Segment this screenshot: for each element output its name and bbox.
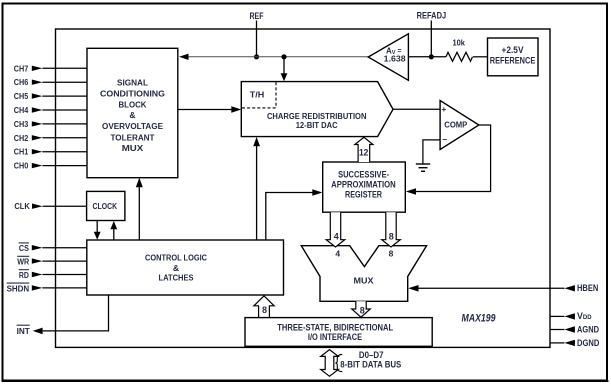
svg-text:CH1: CH1 [14,147,29,157]
svg-text:REGISTER: REGISTER [345,190,382,200]
svg-text:D0–D7: D0–D7 [359,350,384,360]
clock block [87,191,125,220]
svg-text:SUCCESSIVE-: SUCCESSIVE- [338,170,389,180]
wire DAC output to COMP+ [393,108,440,110]
voltage reference +2.5V [488,38,539,76]
three-state bidirectional I/O interface [245,318,432,347]
svg-text:8-BIT DATA BUS: 8-BIT DATA BUS [340,360,401,370]
op-amp A1 gain 1.638 [368,34,408,81]
junction node to T/H [281,54,288,81]
svg-text:RD: RD [19,270,29,280]
data bus D0-D7 [321,350,402,377]
bus 8 MUX to IO interface [352,301,371,317]
pin RD [19,270,87,280]
svg-text:BLOCK: BLOCK [119,99,148,109]
pin CH6 [14,77,87,87]
svg-text:CH0: CH0 [14,161,29,171]
mux block [301,246,426,302]
svg-text:OVERVOLTAGE: OVERVOLTAGE [102,121,163,131]
pin CH7 [14,63,87,73]
pin CH1 [14,147,87,157]
wire control to clock up [110,221,117,240]
signal conditioning block [87,48,178,177]
comparator COMP [440,101,479,150]
svg-text:&: & [129,110,135,120]
svg-text:8: 8 [389,232,394,242]
resistor R1 10k [446,37,473,61]
pin SHDN [7,283,87,293]
svg-text:12: 12 [359,147,369,157]
wire control to SAR [266,189,323,240]
svg-text:T/H: T/H [250,90,265,100]
svg-text:REFERENCE: REFERENCE [490,55,536,65]
svg-text:CH7: CH7 [14,63,29,73]
svg-text:4: 4 [334,232,339,242]
svg-text:MAX199: MAX199 [462,313,497,325]
svg-text:MUX: MUX [122,143,144,153]
pin CH3 [14,119,87,129]
pin CH2 [14,133,87,143]
svg-text:+: + [441,104,446,114]
svg-text:SIGNAL: SIGNAL [117,78,148,88]
pin CH5 [14,91,87,101]
svg-text:12-BIT DAC: 12-BIT DAC [296,120,338,130]
wire COMP output to SAR [406,125,491,195]
svg-text:INT: INT [17,326,31,336]
svg-text:CH6: CH6 [14,77,29,87]
pin DGND [550,338,599,348]
wire control to DAC [253,137,260,240]
node REFADJ [417,11,447,60]
svg-text:4: 4 [335,249,340,259]
ground [416,164,430,171]
svg-text:1.638: 1.638 [384,54,407,63]
svg-text:CH4: CH4 [14,105,29,115]
charge redistribution 12-bit DAC [241,82,393,137]
svg-text:CLOCK: CLOCK [93,201,118,211]
svg-text:CONDITIONING: CONDITIONING [100,89,165,99]
svg-text:REF: REF [250,11,264,21]
svg-text:APPROXIMATION: APPROXIMATION [331,179,396,189]
svg-text:CH2: CH2 [14,133,29,143]
pin VDD [550,311,592,321]
pin CH0 [14,161,87,171]
wire COMP- to ground [423,140,440,164]
svg-text:10k: 10k [452,37,465,47]
wire resistor to reference [473,56,488,58]
node REF [250,11,264,60]
svg-text:AGND: AGND [577,325,599,335]
bus 4 SAR to MUX [326,212,345,247]
svg-text:−: − [442,135,447,145]
pin AGND [550,325,599,335]
chip boundary MAX199 [56,29,551,347]
svg-text:TOLERANT: TOLERANT [111,132,156,142]
svg-text:CONTROL LOGIC: CONTROL LOGIC [145,252,207,262]
svg-text:8: 8 [360,306,365,316]
svg-text:8: 8 [389,249,394,259]
pin HBEN wire to MUX [408,283,598,293]
control logic and latches [87,240,284,295]
svg-text:8: 8 [262,305,267,315]
bus 8 SAR to MUX [382,212,401,247]
svg-text:+2.5V: +2.5V [502,45,525,55]
svg-text:CH5: CH5 [14,91,29,101]
bus 8 IO interface to control [254,296,274,318]
svg-text:MUX: MUX [354,276,374,286]
svg-text:COMP: COMP [444,121,468,130]
pin CS [19,243,87,253]
svg-text:LATCHES: LATCHES [159,272,194,282]
svg-text:&: & [173,263,179,273]
svg-text:WR: WR [17,257,30,267]
pin CH4 [14,105,87,115]
bus 12 SAR to DAC [355,137,373,162]
pin CLK [14,201,86,211]
svg-text:CLK: CLK [14,201,30,211]
pin INT output [17,295,109,336]
svg-text:HBEN: HBEN [577,283,598,293]
svg-text:CH3: CH3 [14,119,29,129]
svg-text:SHDN: SHDN [7,283,30,293]
pin WR [17,256,87,266]
wire reference bus to signal block [179,54,368,60]
svg-text:CS: CS [19,243,29,253]
wire clock to control down [94,221,101,240]
svg-text:DGND: DGND [577,338,599,348]
svg-text:REFADJ: REFADJ [417,11,447,21]
successive-approximation register [323,162,406,212]
svg-text:I/O INTERFACE: I/O INTERFACE [308,332,362,342]
wire control to signal block [136,178,143,240]
wire signal block to DAC [178,106,242,112]
wire amp output to resistor [408,56,446,58]
